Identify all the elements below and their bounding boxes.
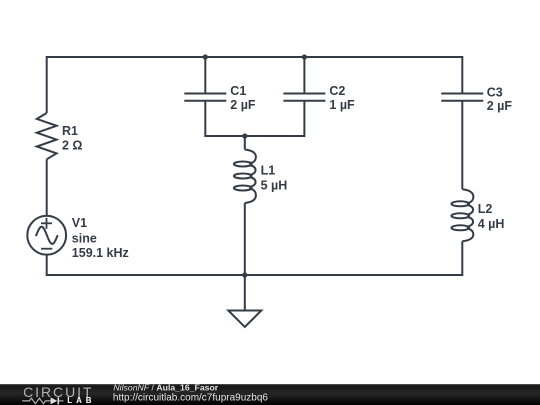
wire: L1 down to bottom rail [244, 203, 246, 275]
wire: L2 down to bottom rail [461, 241, 463, 276]
wire: mid horizontal wire joining C1 and C2 [205, 135, 304, 137]
logo diode triangle [51, 397, 58, 404]
wire: R1 down to V1 [46, 159, 48, 216]
svg-text:http://circuitlab.com/c7fupra9: http://circuitlab.com/c7fupra9uzbq6 [113, 393, 269, 404]
capacitor C2 [283, 84, 355, 112]
resistor R1 [37, 113, 83, 159]
wire: mid wire down to L1 [244, 136, 246, 150]
wire: top rail [47, 56, 463, 58]
wire: top rail down to C3 [461, 56, 463, 94]
node: junction of mid wire and L1 [242, 133, 247, 138]
node: junction of top rail and C2 [302, 54, 307, 59]
wire: bottom rail down to ground [244, 275, 246, 311]
wire: C2 down to mid wire [303, 101, 305, 137]
node: junction of top rail and C1 [203, 54, 208, 59]
wire: top rail down to C2 [303, 57, 305, 94]
wire: left rail, top rail down to R1 [46, 56, 48, 113]
logo wire to LAB [59, 400, 63, 402]
wire: C3 down to L2 [461, 101, 463, 190]
node: junction of bottom rail and ground [242, 272, 247, 277]
footer bar [0, 384, 540, 405]
capacitor C3 [441, 86, 512, 114]
CircuitLab logo: resistor + diode symbol [21, 395, 71, 405]
ground [228, 311, 261, 328]
wire: bottom rail [47, 274, 463, 276]
wire: top rail down to C1 [204, 57, 206, 94]
capacitor C1 [184, 84, 256, 112]
inductor L2 [451, 189, 504, 241]
logo diode cathode bar [57, 397, 59, 404]
inductor L1 [234, 150, 287, 204]
svg-text:NilsonNF / Aula_16_Fasor: NilsonNF / Aula_16_Fasor [113, 383, 218, 393]
svg-text:LAB: LAB [67, 396, 95, 405]
wire: C1 down to mid wire [204, 101, 206, 137]
voltage source V1 (sine, 159.1 kHz) [27, 216, 128, 260]
logo resistor zigzag [22, 398, 50, 404]
wire: V1 down to bottom rail [46, 255, 48, 277]
